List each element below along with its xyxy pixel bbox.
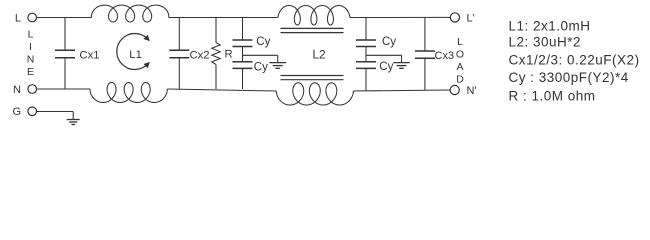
L1 arrowhead bottom [144,62,150,68]
inductor L2 bottom winding [276,83,353,105]
wire Cx1 bottom [64,58,66,89]
svg-text:G: G [12,106,21,118]
capacitor Cx1 [55,49,75,51]
svg-text:Cy: Cy [254,61,268,73]
inductor L1 bottom winding [90,83,167,103]
ground symbol G [67,119,80,121]
L1 rotation arrow [117,34,148,70]
svg-text:Cy: Cy [379,61,393,73]
wire R top [215,18,217,43]
capacitor Cy lower-right [356,61,376,63]
svg-text:R: R [225,48,233,60]
wire Cy1 mid to ground [243,54,278,56]
wire top rail L1 to L2 [169,17,278,19]
svg-text:R : 1.0M ohm: R : 1.0M ohm [509,88,596,103]
wire Cy2 top [365,18,367,41]
wire Cy2 middle [365,47,367,62]
svg-text:Cy : 3300pF(Y2)*4: Cy : 3300pF(Y2)*4 [509,70,629,85]
resistor R [212,43,220,65]
wire ground stem 1 [277,55,279,62]
wire R bottom [215,65,217,90]
terminal N' [450,85,459,94]
svg-text:N: N [27,53,35,65]
terminal L' [450,13,459,22]
svg-text:O: O [456,48,464,60]
svg-text:Cx1/2/3: 0.22uF(X2): Cx1/2/3: 0.22uF(X2) [509,52,640,67]
svg-text:L1: L1 [129,49,142,61]
svg-text:Cx2: Cx2 [190,49,210,61]
inductor L1 top winding [91,5,168,22]
svg-text:D: D [456,74,464,86]
capacitor Cy upper-right [356,39,376,41]
capacitor Cx3 [415,50,435,52]
wire Cx3 top [424,18,426,52]
wire top rail L2 to L' [350,16,450,18]
capacitor Cx2 [169,49,189,51]
wire Cx2 bottom [178,58,180,89]
svg-text:Cx1: Cx1 [79,49,99,61]
terminal G [28,107,37,116]
wire ground stem 2 [401,55,403,62]
svg-text:I: I [29,41,32,53]
svg-text:E: E [27,66,34,78]
wire bottom rail L1 to L2 [167,89,276,91]
svg-text:Cy: Cy [382,36,396,48]
wire Cy2 bottom [365,68,367,91]
capacitor Cy upper-left [233,39,253,41]
wire Cx1 top [64,18,66,51]
wire Cy1 middle [242,47,244,62]
wire Cy2 mid to ground [366,54,402,56]
svg-text:L2: L2 [313,47,326,61]
L2 core lines top pair [281,27,344,29]
wire Cy1 top [242,18,244,41]
wire bottom rail L2 to N' [353,90,450,91]
capacitor Cy lower-left [233,61,253,63]
terminal N [28,85,37,94]
L2 core lines bottom pair [281,75,344,77]
terminal L [28,13,37,22]
svg-text:Cy: Cy [256,36,270,48]
wire top rail L to L1 [37,17,92,19]
svg-text:L1: 2x1.0mH: L1: 2x1.0mH [509,19,591,34]
svg-text:L: L [28,29,34,41]
svg-text:L': L' [467,13,475,25]
svg-text:Cx3: Cx3 [435,50,455,62]
svg-text:L: L [15,13,21,25]
inductor L2 top winding [278,6,350,26]
svg-text:L2: 30uH*2: L2: 30uH*2 [509,35,582,50]
L1 arrowhead top [144,35,150,41]
wire Cx2 top [178,18,180,51]
wire ground stem G [72,112,74,120]
svg-text:N: N [13,84,21,96]
wire G to ground [36,111,73,113]
ground symbol 1 [269,62,286,64]
svg-text:A: A [456,61,463,73]
svg-text:L: L [457,36,463,48]
wire Cy1 bottom [242,68,244,89]
wire Cx3 bottom [424,58,426,90]
svg-text:N': N' [467,85,477,97]
ground symbol 2 [393,62,410,64]
wire bottom rail N to L1 [37,88,90,90]
